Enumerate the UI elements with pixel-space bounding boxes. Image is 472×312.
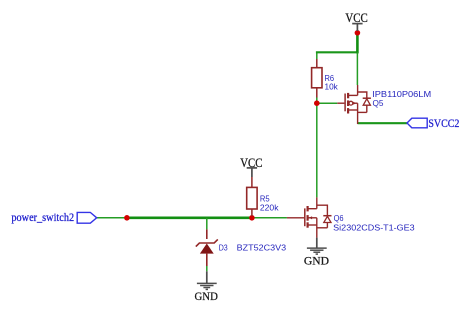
Q6 body diode bottom branch <box>317 227 328 229</box>
wire stub D3 anode to GND <box>206 266 208 271</box>
svg-text:VCC: VCC <box>345 10 367 25</box>
svg-text:BZT52C3V3: BZT52C3V3 <box>237 242 287 252</box>
Q6 body arrow <box>309 216 312 219</box>
Q6 gate bar <box>304 208 306 226</box>
wire Q5 source to SVCC2 port <box>358 122 407 124</box>
Q6 gate pin <box>287 217 304 219</box>
Q6 drain connection <box>308 208 317 210</box>
svg-text:10k: 10k <box>325 82 339 92</box>
Q5 body arrow <box>353 102 356 105</box>
Q5 drain connection <box>348 94 358 96</box>
wire VCC stem to Q5 drain <box>356 52 358 85</box>
Q5 body diode branch <box>358 92 367 98</box>
Q6 drain pin from top <box>316 197 318 208</box>
power port VCC (right) <box>345 10 367 31</box>
Q5 channel segments <box>347 93 349 98</box>
Q5 body diode anode <box>366 105 368 112</box>
wire junction 1 to junction 2 (thick) <box>127 217 252 220</box>
svg-text:Si2302CDS-T1-GE3: Si2302CDS-T1-GE3 <box>333 222 415 232</box>
Q6 body connection <box>308 217 317 219</box>
Q6 body diode triangle <box>324 216 331 222</box>
Q5 body bubble <box>349 101 353 105</box>
Q5 body connection <box>353 102 358 104</box>
resistor R5 <box>247 177 257 216</box>
power port VCC (left, above R5) <box>240 155 262 177</box>
wire R6 junction to Q5 gate <box>317 102 338 104</box>
wire stub to D3 cathode <box>206 218 208 230</box>
svg-text:Q5: Q5 <box>373 98 384 108</box>
Q5 source connection <box>348 109 358 111</box>
Q6 body diode anode <box>326 223 328 228</box>
Q6 source connection <box>308 224 317 226</box>
Q5 drain pin from top <box>357 85 359 95</box>
svg-text:GND: GND <box>304 256 329 268</box>
junction dot VCC <box>355 30 361 36</box>
wire VCC stem upper (thick) <box>356 34 359 54</box>
svg-text:D3: D3 <box>219 242 228 252</box>
transistor Q5 P-MOSFET IPB110P06LM <box>337 85 371 124</box>
junction dot node 1 on power_switch2 net <box>124 215 130 221</box>
zener diode D3 <box>196 229 218 266</box>
Q5 body diode bottom branch <box>358 111 367 113</box>
Q5 body diode triangle <box>363 99 370 105</box>
Q5 gate bar <box>344 94 346 112</box>
svg-text:220k: 220k <box>260 202 279 212</box>
wire R6 top vertical <box>316 52 318 60</box>
port SVCC2 <box>407 118 460 130</box>
port power_switch2 <box>11 212 96 224</box>
svg-text:power_switch2: power_switch2 <box>11 212 74 224</box>
junction dot under R6 <box>314 100 320 106</box>
junction dot node 2 under R5 <box>249 215 255 221</box>
svg-text:SVCC2: SVCC2 <box>428 118 459 130</box>
svg-text:GND: GND <box>195 291 218 303</box>
Q6 channel segments <box>307 206 309 211</box>
wire power_switch2 to junction 1 <box>97 217 127 219</box>
Q6 body diode branch <box>317 205 328 216</box>
wire R6 junction down to Q6 drain <box>316 103 318 197</box>
ground GND (right, under Q6) <box>304 238 329 268</box>
wire R6 bottom stub <box>316 98 318 104</box>
wire junction 2 to Q6 gate <box>252 217 287 219</box>
Q5 gate pin <box>337 102 344 104</box>
Q5 source vertical to pin <box>357 103 359 124</box>
wire R6 top horizontal to VCC stem <box>316 51 358 53</box>
Q6 source vertical to pin <box>316 218 318 238</box>
transistor Q6 N-MOSFET Si2302CDS-T1-GE3 <box>287 197 332 237</box>
Q6 body diode cathode bar <box>323 215 331 217</box>
ground GND (left, under D3) <box>195 271 218 303</box>
resistor R6 <box>312 59 322 98</box>
Q5 body diode cathode bar <box>363 97 371 99</box>
